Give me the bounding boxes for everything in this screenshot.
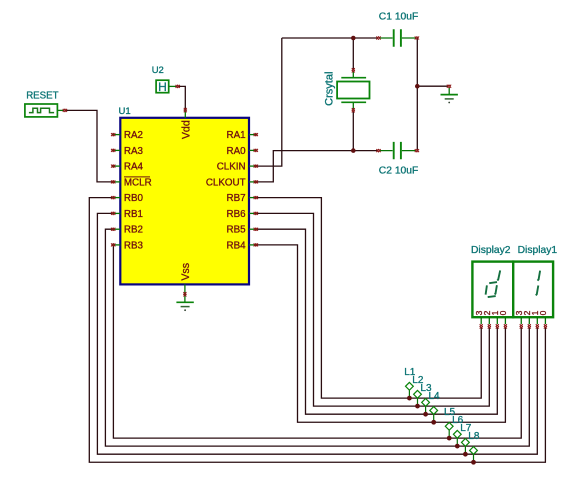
svg-text:RB1: RB1 [124, 209, 143, 220]
svg-text:RA2: RA2 [124, 130, 143, 141]
svg-text:L8: L8 [468, 431, 480, 442]
svg-text:Vss: Vss [180, 263, 192, 281]
svg-text:RB7: RB7 [227, 193, 246, 204]
svg-text:RA0: RA0 [227, 146, 247, 157]
svg-text:RA3: RA3 [124, 146, 144, 157]
svg-text:L4: L4 [429, 391, 441, 402]
svg-text:0: 0 [538, 310, 548, 315]
svg-text:RESET: RESET [26, 90, 58, 101]
svg-text:RB4: RB4 [227, 240, 247, 251]
svg-text:MCLR: MCLR [124, 177, 152, 188]
svg-text:RA1: RA1 [227, 130, 246, 141]
svg-text:U1: U1 [119, 106, 131, 117]
svg-text:RB0: RB0 [124, 193, 144, 204]
svg-text:C2 10uF: C2 10uF [379, 166, 419, 177]
svg-text:RB5: RB5 [227, 225, 247, 236]
svg-text:0: 0 [498, 310, 508, 315]
svg-text:RB3: RB3 [124, 240, 144, 251]
svg-text:U2: U2 [152, 65, 164, 76]
svg-text:RB6: RB6 [227, 209, 247, 220]
svg-text:H: H [158, 80, 167, 94]
svg-text:CLKIN: CLKIN [217, 162, 246, 173]
svg-text:Vdd: Vdd [180, 120, 192, 139]
svg-text:C1 10uF: C1 10uF [379, 12, 419, 23]
svg-text:Crsytal: Crsytal [323, 72, 335, 106]
svg-text:RB2: RB2 [124, 225, 143, 236]
svg-text:CLKOUT: CLKOUT [206, 177, 246, 188]
svg-text:RA4: RA4 [124, 162, 144, 173]
svg-text:Display1: Display1 [518, 245, 558, 256]
svg-text:Display2: Display2 [471, 245, 511, 256]
